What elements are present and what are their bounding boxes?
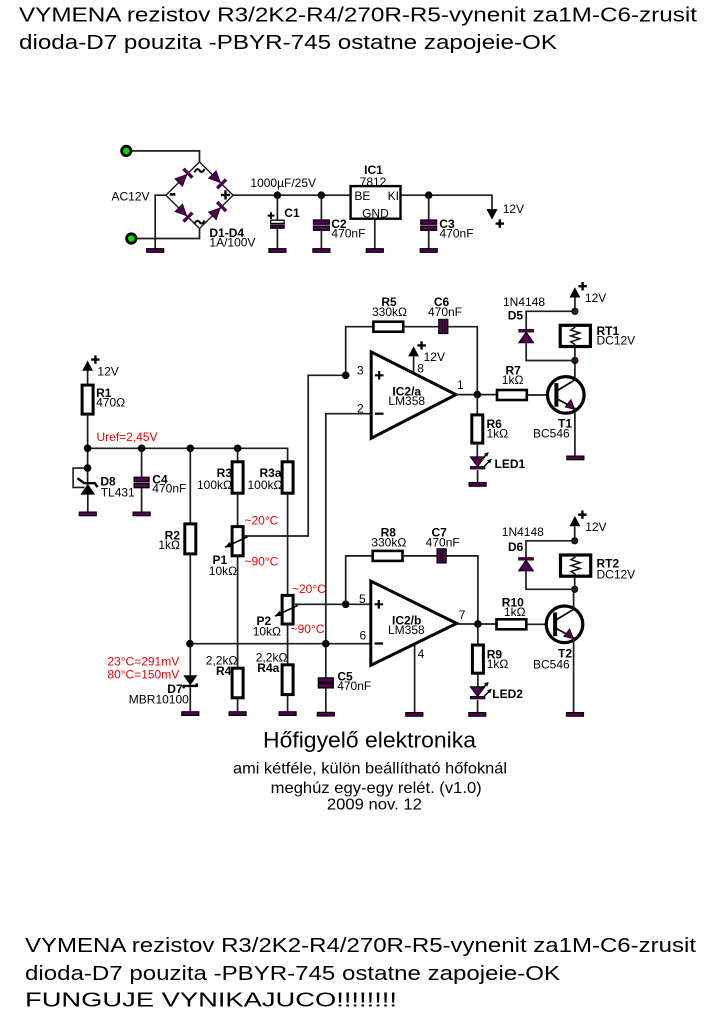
svg-text:10kΩ: 10kΩ <box>253 625 281 639</box>
node relay RT2 top <box>572 538 578 544</box>
svg-text:meghúz egy-egy relét. (v1.0): meghúz egy-egy relét. (v1.0) <box>271 780 482 797</box>
svg-text:10kΩ: 10kΩ <box>209 564 237 578</box>
ground (LED2) <box>469 713 486 717</box>
svg-text:470nF: 470nF <box>331 227 365 241</box>
capacitor C4 470nF <box>141 448 143 477</box>
TL431 D8 <box>73 468 88 487</box>
svg-text:Uref=2,45V: Uref=2,45V <box>97 430 158 444</box>
resistor R5 330k <box>373 322 403 332</box>
wire <box>287 493 289 595</box>
node relay bottom <box>572 358 578 364</box>
capacitor C1 1000uF <box>276 195 278 220</box>
wire main 12V rail <box>233 194 351 196</box>
svg-text:dioda-D7 pouzita -PBYR-745 ost: dioda-D7 pouzita -PBYR-745 ostatne zapoj… <box>25 963 561 985</box>
svg-text:470nF: 470nF <box>440 227 474 241</box>
svg-text:330kΩ: 330kΩ <box>371 535 406 549</box>
resistor R6 1k <box>476 395 478 415</box>
potentiometer P2 10k <box>282 595 293 624</box>
node R2 <box>187 445 195 453</box>
svg-text:LED1: LED1 <box>495 457 526 471</box>
node sensor rail left <box>186 640 194 648</box>
wire sensor rail to pin2/pin6 <box>190 643 371 645</box>
bridge rectifier D1-D4 diamond <box>166 162 233 229</box>
resistor R3 100k <box>237 448 239 462</box>
wire <box>477 673 479 687</box>
LED1 <box>470 457 485 467</box>
node D8 ref <box>84 464 92 472</box>
svg-text:GND: GND <box>362 207 389 221</box>
svg-text:1kΩ: 1kΩ <box>502 373 524 387</box>
svg-text:2009 nov. 12: 2009 nov. 12 <box>327 797 422 814</box>
wire T2 emitter down <box>573 637 575 713</box>
svg-text:3: 3 <box>357 363 364 377</box>
svg-text:12V: 12V <box>97 364 118 378</box>
node relay RT2 bottom <box>572 586 578 592</box>
wire feedback R5/C6 <box>346 327 374 376</box>
capacitor C7 470nF <box>437 549 441 563</box>
wire <box>574 297 576 311</box>
capacitor C5 470nF <box>325 644 327 678</box>
wire bridge minus to ground <box>155 195 166 249</box>
terminal J1 (AC input top) <box>122 146 131 155</box>
wire <box>477 470 479 482</box>
LED2 <box>470 687 485 697</box>
bridge polarity marks <box>170 193 176 196</box>
ground (C5) <box>317 712 334 716</box>
supply arrow 12V (RT2) <box>570 516 581 526</box>
wire T1 collector up <box>574 361 576 381</box>
wire <box>403 326 439 328</box>
svg-text:Hőfigyelő elektronika: Hőfigyelő elektronika <box>263 728 477 753</box>
svg-text:MBR10100: MBR10100 <box>129 692 189 706</box>
wire R1 to Uref rail and D8 <box>87 414 89 483</box>
supply arrow 12V (R1) <box>82 361 93 371</box>
diode D3 (bridge bottom-left) <box>175 204 187 216</box>
svg-text:~20°C: ~20°C <box>292 582 326 596</box>
svg-text:KI: KI <box>388 189 399 203</box>
svg-text:dioda-D7 pouzita -PBYR-745 ost: dioda-D7 pouzita -PBYR-745 ostatne zapoj… <box>19 32 558 54</box>
svg-text:5: 5 <box>359 592 366 606</box>
svg-text:C1: C1 <box>284 206 300 220</box>
diode D4 (bridge bottom-right) <box>209 208 221 220</box>
svg-text:AC12V: AC12V <box>112 189 150 203</box>
svg-text:4: 4 <box>418 647 425 661</box>
pin 8 supply arrow <box>413 357 415 374</box>
relay RT2 DC12V <box>561 555 591 576</box>
node C1 <box>274 191 282 199</box>
resistor R4 2,2k <box>232 668 243 698</box>
svg-text:1: 1 <box>457 378 464 392</box>
node R1/D8 <box>84 445 92 453</box>
diode D5 1N4148 <box>526 311 575 329</box>
wire R7 to T1 base <box>527 394 557 396</box>
op-amp IC2/b LM358 <box>371 581 457 665</box>
diode D2 (bridge top-right) <box>209 171 221 183</box>
svg-text:BC546: BC546 <box>533 426 570 440</box>
wire <box>402 555 437 557</box>
resistor R7 1k <box>497 390 527 400</box>
wire C7 to output <box>447 556 478 624</box>
svg-text:1N4148: 1N4148 <box>502 525 544 539</box>
svg-text:1kΩ: 1kΩ <box>158 538 180 552</box>
ground (T1) <box>567 456 584 460</box>
node output IC2/b <box>474 620 482 628</box>
svg-text:D6: D6 <box>508 540 524 554</box>
svg-text:330kΩ: 330kΩ <box>372 305 407 319</box>
resistor R8 330k <box>373 551 403 561</box>
capacitor C3 470nF <box>428 195 430 220</box>
resistor R10 1k <box>497 619 527 629</box>
capacitor C2 470nF <box>320 195 322 220</box>
wire R2 to D7 <box>189 554 191 675</box>
op-amp IC2/a LM358 <box>371 352 456 438</box>
svg-text:12V: 12V <box>585 520 606 534</box>
svg-text:DC12V: DC12V <box>597 333 636 347</box>
svg-text:LED2: LED2 <box>492 687 523 701</box>
svg-text:80°C=150mV: 80°C=150mV <box>107 668 179 682</box>
node C3 <box>425 191 433 199</box>
wire <box>132 151 200 163</box>
svg-text:23°C=291mV: 23°C=291mV <box>107 655 179 669</box>
wire IC2/a pin2 <box>326 414 371 644</box>
transistor T2 BC546 <box>546 606 583 643</box>
svg-text:1kΩ: 1kΩ <box>487 427 509 441</box>
resistor R2 1k <box>185 524 196 554</box>
wire P1 wiper to IC2/a pin3 <box>244 375 346 536</box>
svg-text:100kΩ: 100kΩ <box>248 478 283 492</box>
svg-text:BE: BE <box>354 189 370 203</box>
resistor R3a 100k <box>282 462 293 493</box>
svg-text:1kΩ: 1kΩ <box>487 657 509 671</box>
ground (T2) <box>567 713 584 717</box>
ground (R4) <box>229 712 246 716</box>
svg-text:470nF: 470nF <box>426 535 460 549</box>
svg-text:TL431: TL431 <box>101 486 135 500</box>
wire T2 collector up <box>573 589 575 609</box>
svg-text:VYMENA rezistov R3/2K2-R4/270R: VYMENA rezistov R3/2K2-R4/270R-R5-vyneni… <box>25 935 697 957</box>
svg-text:12V: 12V <box>585 291 606 305</box>
terminal J2 (AC input bottom) <box>127 234 136 243</box>
svg-text:LM358: LM358 <box>388 623 425 637</box>
svg-text:12V: 12V <box>424 350 445 364</box>
wire output pin1 <box>456 394 497 396</box>
IC1 7812 regulator <box>351 186 401 219</box>
svg-text:7812: 7812 <box>360 175 387 189</box>
diode D6 1N4148 <box>526 541 575 558</box>
svg-text:LM358: LM358 <box>388 394 425 408</box>
ground (pin4) <box>406 713 423 717</box>
node output IC2/a <box>474 391 482 399</box>
svg-text:12V: 12V <box>503 202 524 216</box>
resistor R1 470ohm <box>82 385 93 414</box>
wire <box>237 493 239 526</box>
wire output pin7 <box>457 623 497 625</box>
svg-text:FUNGUJE VYNIKAJUCO!!!!!!!!: FUNGUJE VYNIKAJUCO!!!!!!!! <box>25 990 397 1012</box>
svg-text:R4: R4 <box>216 664 232 678</box>
wire R10 to T2 base <box>526 623 555 625</box>
svg-text:6: 6 <box>360 629 367 643</box>
svg-text:470nF: 470nF <box>428 305 462 319</box>
svg-text:1A/100V: 1A/100V <box>209 236 255 250</box>
wire <box>476 443 478 457</box>
resistor R4a 2,2k <box>282 665 293 695</box>
svg-text:2: 2 <box>357 402 364 416</box>
node C2 <box>318 191 326 199</box>
wire <box>477 700 479 713</box>
wire <box>574 347 576 361</box>
node relay top <box>572 308 578 314</box>
node pin2/C5 <box>322 640 330 648</box>
svg-text:7: 7 <box>459 608 466 622</box>
ground (D7) <box>182 712 199 716</box>
node pin5 <box>342 601 350 609</box>
wire <box>574 527 576 541</box>
ground (IC1) <box>366 249 383 253</box>
svg-text:8: 8 <box>417 361 424 375</box>
wire C6 to output <box>448 327 477 395</box>
wire Uref rail <box>88 448 288 462</box>
ground (LED1) <box>469 483 486 487</box>
svg-text:~90°C: ~90°C <box>291 622 325 636</box>
wire <box>87 371 89 386</box>
svg-text:100kΩ: 100kΩ <box>197 478 232 492</box>
svg-text:~20°C: ~20°C <box>245 513 279 527</box>
node pin3 <box>342 372 350 380</box>
ground (bridge) <box>147 249 164 253</box>
resistor R9 1k <box>477 624 479 645</box>
wire P2 to R4a <box>287 624 289 665</box>
ground (R4a) <box>279 712 296 716</box>
svg-text:BC546: BC546 <box>533 658 570 672</box>
svg-text:1kΩ: 1kΩ <box>504 605 526 619</box>
potentiometer P1 10k <box>232 527 243 556</box>
diode D1 (bridge top-left) <box>175 175 187 187</box>
wire T1 emitter down <box>574 408 576 457</box>
wire P1 to R4 <box>237 556 239 668</box>
svg-text:R4a: R4a <box>257 661 279 675</box>
svg-text:VYMENA rezistov R3/2K2-R4/270R: VYMENA rezistov R3/2K2-R4/270R-R5-vyneni… <box>19 5 698 27</box>
diode D7 MBR10100 <box>183 675 197 685</box>
wire R2 column <box>189 448 191 524</box>
svg-text:1N4148: 1N4148 <box>503 295 545 309</box>
ground (D8) <box>79 512 96 516</box>
wire feedback R8/C7 <box>346 556 373 604</box>
node R3 <box>234 445 242 453</box>
svg-text:470Ω: 470Ω <box>96 395 125 409</box>
supply arrow 12V (RT1) <box>570 287 581 297</box>
svg-text:1000µF/25V: 1000µF/25V <box>250 176 316 190</box>
wire <box>574 576 576 589</box>
ground (C4) <box>133 512 150 516</box>
svg-text:470nF: 470nF <box>152 482 186 496</box>
supply arrow 12V output <box>486 209 497 219</box>
wire IC1 GND pin <box>374 219 376 249</box>
wire pin 4 to ground <box>414 644 416 713</box>
capacitor C6 470nF <box>439 319 443 333</box>
relay RT1 DC12V <box>560 325 590 346</box>
svg-text:470nF: 470nF <box>337 679 371 693</box>
svg-text:DC12V: DC12V <box>597 567 636 581</box>
transistor T1 BC546 <box>548 377 585 414</box>
svg-text:~90°C: ~90°C <box>245 554 279 568</box>
wire <box>137 229 200 239</box>
node C4 <box>138 445 146 453</box>
wire P2 wiper to IC2/b pin5 <box>295 603 371 605</box>
svg-text:D5: D5 <box>508 308 524 322</box>
svg-text:ami kétféle, külön beállítható: ami kétféle, külön beállítható hőfoknál <box>233 760 507 777</box>
